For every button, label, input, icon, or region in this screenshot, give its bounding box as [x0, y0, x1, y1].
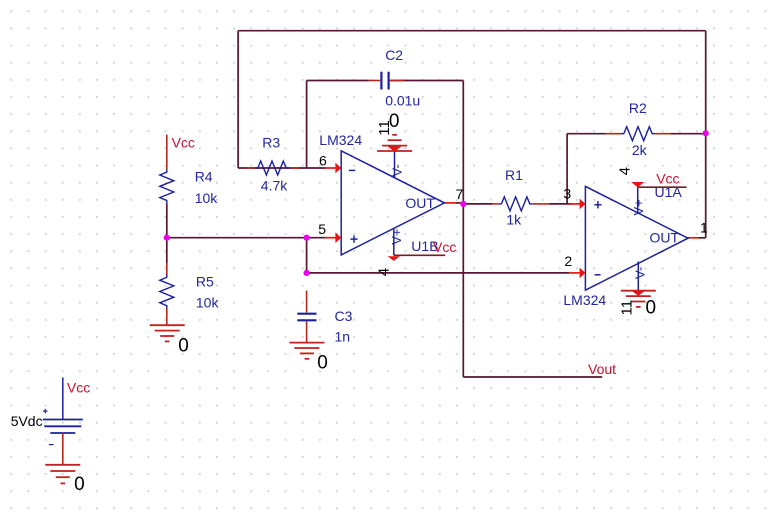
op-amp U1B LM324 — [341, 151, 444, 255]
junction node 7 — [460, 201, 466, 207]
svg-text:0.01u: 0.01u — [385, 92, 420, 108]
resistor R5 — [160, 263, 174, 325]
wire C2 left branch — [307, 80, 369, 82]
svg-text:3: 3 — [563, 186, 571, 202]
capacitor C2 — [369, 72, 405, 90]
capacitor C3 — [297, 291, 316, 343]
svg-text:0: 0 — [389, 111, 400, 132]
wire R3 to pin 6 — [238, 167, 326, 169]
wire C3 node to pin 2 — [307, 272, 569, 274]
wire C2 right branch — [390, 80, 463, 82]
power symbol Vcc at U1B pin 4 — [388, 255, 446, 261]
svg-text:5: 5 — [318, 221, 326, 237]
svg-text:Vcc: Vcc — [67, 380, 90, 396]
wire left vertical down to R3 — [237, 31, 239, 168]
pin 1 output stub U1A — [687, 237, 699, 239]
resistor R3 — [246, 161, 299, 175]
wire R2 right to junction — [671, 133, 706, 135]
svg-text:R1: R1 — [505, 167, 523, 183]
ground 0 at U1A pin 11 — [621, 290, 656, 292]
svg-text:1n: 1n — [335, 329, 351, 345]
svg-text:V+: V+ — [389, 229, 404, 245]
ground 0 at U1B pin 11 — [377, 150, 412, 152]
pin 6 arrow U1B — [325, 167, 336, 169]
wire to R2 left — [567, 133, 605, 135]
svg-text:0: 0 — [74, 474, 85, 495]
svg-text:2: 2 — [564, 253, 572, 269]
resistor R2 — [605, 127, 671, 141]
wire Vout — [463, 376, 602, 378]
pin 7 output stub U1B — [444, 202, 456, 204]
wire top feedback from U1A output to R3 — [238, 30, 706, 32]
wire R1 to pin 3 — [550, 203, 573, 205]
wire node 7 to R1 — [463, 203, 492, 205]
resistor R1 — [492, 197, 550, 211]
svg-text:LM324: LM324 — [563, 292, 606, 308]
svg-text:V-: V- — [633, 267, 648, 279]
svg-text:10k: 10k — [195, 190, 219, 206]
svg-text:R3: R3 — [262, 134, 280, 150]
U1A V+ power pin 4 to Vcc — [631, 187, 646, 215]
svg-text:4.7k: 4.7k — [261, 178, 288, 194]
U1B V- power pin 11 to ground — [389, 151, 404, 178]
wire node to C3 node — [306, 238, 308, 273]
ground 0 below C3 — [289, 342, 324, 344]
junction C3 node — [304, 270, 310, 276]
svg-text:0: 0 — [178, 335, 189, 356]
svg-text:7: 7 — [456, 186, 464, 202]
svg-text:11: 11 — [618, 300, 635, 316]
svg-text:1: 1 — [700, 220, 708, 236]
svg-text:LM324: LM324 — [319, 132, 362, 148]
power symbol Vcc at U1A pin 4 — [631, 182, 687, 187]
junction R4-R5 divider node — [164, 235, 170, 241]
svg-text:Vcc: Vcc — [656, 171, 679, 187]
svg-text:4: 4 — [617, 167, 634, 175]
svg-text:2k: 2k — [632, 142, 648, 158]
svg-text:R2: R2 — [629, 100, 647, 116]
svg-text:0: 0 — [317, 352, 328, 373]
svg-text:Vcc: Vcc — [172, 135, 195, 151]
svg-text:R4: R4 — [195, 169, 213, 185]
svg-text:6: 6 — [319, 153, 327, 169]
svg-text:C2: C2 — [385, 47, 403, 63]
svg-text:Vcc: Vcc — [433, 239, 456, 255]
wire R4 to divider node — [166, 203, 168, 237]
svg-text:V+: V+ — [631, 199, 646, 215]
wire C2 left vertical to pin6 node — [306, 81, 308, 169]
svg-text:5Vdc: 5Vdc — [11, 413, 43, 429]
U1B V+ power pin 4 to Vcc — [389, 229, 404, 256]
wire vertical from C2 through node7 down to Vout — [462, 81, 464, 378]
svg-text:4: 4 — [376, 268, 393, 276]
junction pin5 node — [304, 235, 310, 241]
svg-text:OUT: OUT — [405, 195, 435, 211]
pin 2 arrow U1A — [569, 272, 580, 274]
svg-text:1k: 1k — [506, 211, 522, 227]
svg-text:0: 0 — [646, 298, 657, 319]
pin 3 arrow U1A — [569, 203, 580, 205]
svg-text:V-: V- — [389, 164, 404, 176]
svg-text:OUT: OUT — [650, 230, 680, 246]
wire right vertical junction to U1A out — [705, 31, 707, 238]
dc source V1 5Vdc — [43, 377, 83, 464]
U1A V- power pin 11 to ground — [633, 262, 648, 291]
resistor R4 — [160, 135, 174, 204]
wire divider node to R5 — [166, 238, 168, 263]
ground 0 below V1 — [45, 464, 80, 466]
svg-text:C3: C3 — [335, 308, 353, 324]
svg-text:Vout: Vout — [588, 361, 616, 377]
svg-text:R5: R5 — [196, 274, 214, 290]
op-amp U1A LM324 — [585, 186, 688, 290]
svg-text:10k: 10k — [196, 295, 220, 311]
junction R2 right / feedback — [703, 130, 709, 136]
pin 5 arrow U1B — [325, 237, 336, 239]
wire divider node to pin 5 — [167, 237, 307, 239]
ground 0 below R5 — [150, 324, 185, 326]
wire R2 left vertical — [566, 134, 568, 204]
